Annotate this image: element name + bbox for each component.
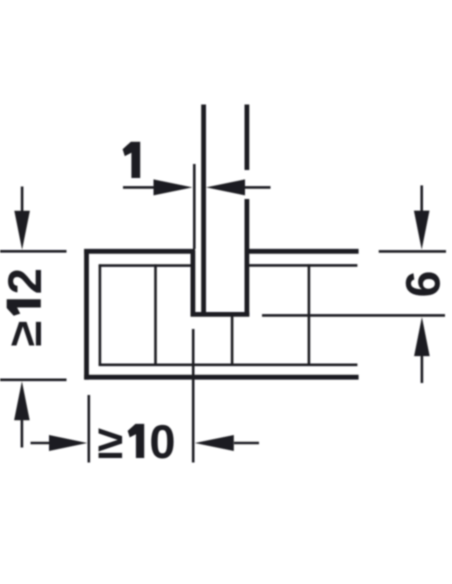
- svg-text:≥: ≥: [0, 321, 51, 347]
- svg-text:≥: ≥: [98, 415, 124, 468]
- svg-text:6: 6: [398, 271, 451, 298]
- svg-text:0: 0: [149, 415, 175, 468]
- svg-text:2: 2: [0, 268, 51, 294]
